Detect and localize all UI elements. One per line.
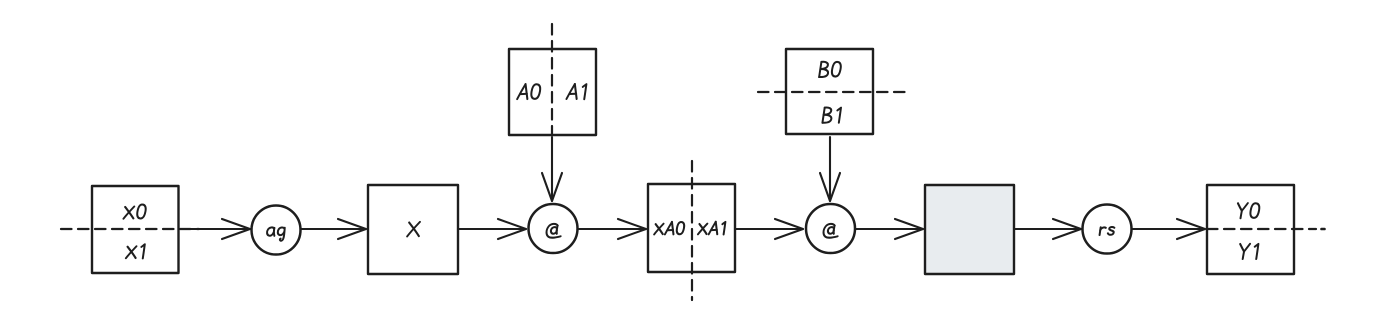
dashed shard split line through xA box (vertical) xyxy=(691,161,693,300)
label Y1 xyxy=(1239,244,1259,259)
label A1 xyxy=(566,84,586,99)
label B1 xyxy=(822,108,841,123)
box B0/B1 xyxy=(786,49,873,134)
label Y0 xyxy=(1236,203,1260,218)
box x0/x1 xyxy=(92,186,179,273)
matmul node @ (1) xyxy=(529,204,578,253)
dashed shard split line through A0/A1 box (vertical) xyxy=(551,24,553,135)
matmul node @ (2) xyxy=(806,204,855,253)
wire arrow: X box to matmul node 1 xyxy=(458,219,526,239)
dashed shard split line through x0/x1 box xyxy=(61,228,199,230)
label @ (matmul 1) xyxy=(546,224,562,238)
box Y0/Y1 xyxy=(1207,185,1294,274)
box A0/A1 xyxy=(509,49,596,135)
label A0 xyxy=(517,84,541,99)
wire arrow: rs node to Y box xyxy=(1132,219,1205,239)
dashed shard split line through B box (horizontal) xyxy=(758,91,905,93)
label rs xyxy=(1100,227,1115,235)
label ag xyxy=(266,227,285,240)
box X xyxy=(368,185,458,274)
gray partial-result box xyxy=(925,185,1014,274)
label B0 xyxy=(819,62,841,77)
all-gather node ag xyxy=(252,206,301,255)
wire arrow: B box down to matmul node 2 xyxy=(820,137,840,201)
label x0 xyxy=(123,205,146,219)
label X xyxy=(407,222,420,237)
label xA0 xyxy=(654,222,685,235)
wire arrow: A box down to matmul node 1 xyxy=(542,137,562,201)
dash-line end dot xyxy=(1322,228,1325,231)
wire arrow: x box to ag node xyxy=(181,219,250,239)
dashed shard split line through Y box xyxy=(1207,228,1316,230)
label xA1 xyxy=(698,222,725,235)
wire arrow: xA box to matmul node 2 xyxy=(735,219,803,239)
box xA0/xA1 xyxy=(648,184,735,272)
label x1 xyxy=(126,244,145,258)
wire arrow: matmul 2 to partial-result box xyxy=(856,219,923,239)
wire arrow: partial-result box to rs node xyxy=(1014,219,1081,239)
wire arrow: ag to X box xyxy=(301,219,366,239)
wire arrow: matmul 1 to xA box xyxy=(578,219,646,239)
label @ (matmul 2) xyxy=(823,224,839,238)
reduce-scatter node rs xyxy=(1083,205,1132,254)
